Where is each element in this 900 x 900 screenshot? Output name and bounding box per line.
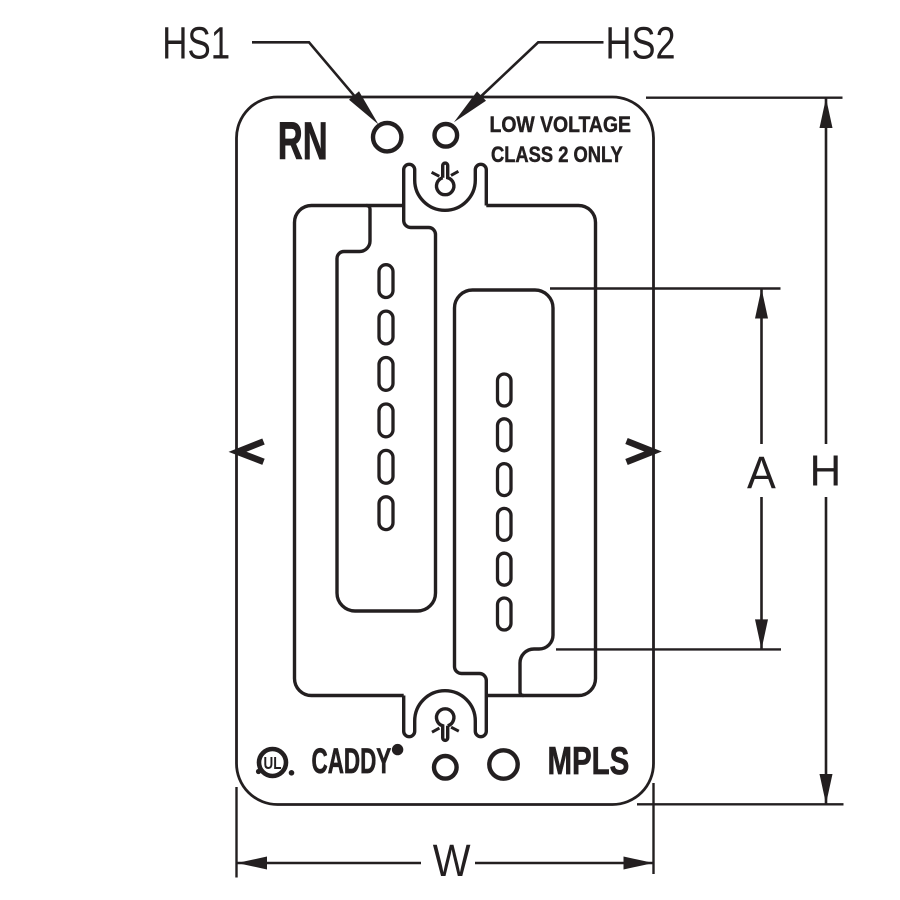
- A dimension: [550, 287, 781, 289]
- HS2 hole: [435, 124, 458, 147]
- svg-text:MPLS: MPLS: [548, 740, 630, 783]
- opening right boundary: [486, 206, 595, 696]
- CADDY registered dot: [392, 744, 403, 755]
- right tongue: [455, 290, 554, 696]
- H bottom arrowhead: [820, 774, 833, 804]
- UL logo circle: [259, 749, 286, 776]
- svg-text:RN: RN: [278, 113, 328, 171]
- bottom keyhole icon: [437, 709, 454, 741]
- bottom small hole: [434, 756, 457, 779]
- svg-text:H: H: [810, 447, 842, 496]
- HS2 leader: [475, 42, 604, 102]
- W left arrowhead: [237, 857, 267, 870]
- HS2 arrowhead: [454, 91, 486, 122]
- left tongue: [337, 206, 436, 612]
- svg-text:LOW VOLTAGE: LOW VOLTAGE: [490, 113, 631, 138]
- H dimension: [646, 96, 843, 98]
- svg-text:CLASS 2 ONLY: CLASS 2 ONLY: [491, 142, 623, 167]
- left chevron: [238, 442, 264, 462]
- svg-text:UL: UL: [264, 754, 282, 773]
- top arch (keyhole notch): [404, 164, 487, 210]
- plate outline: [237, 97, 654, 805]
- HS1 hole: [373, 123, 401, 151]
- svg-text:A: A: [747, 448, 776, 498]
- svg-text:CADDY: CADDY: [312, 742, 392, 781]
- opening left/top boundary: [295, 206, 404, 696]
- HS1 arrowhead: [349, 91, 379, 124]
- left tongue slots: [379, 265, 393, 530]
- bottom large hole: [489, 750, 517, 778]
- top keyhole icon: [437, 163, 454, 195]
- H top arrowhead: [820, 98, 833, 128]
- W dimension: [235, 787, 237, 878]
- bottom arch (keyhole notch): [404, 691, 487, 737]
- A top arrowhead: [755, 289, 768, 319]
- right chevron: [627, 441, 654, 462]
- A bottom arrowhead: [755, 619, 768, 649]
- HS1 leader: [252, 42, 358, 100]
- svg-text:HS2: HS2: [606, 18, 676, 69]
- right tongue slots: [498, 374, 512, 630]
- svg-text:HS1: HS1: [162, 18, 230, 68]
- svg-text:W: W: [433, 836, 471, 887]
- W right arrowhead: [624, 857, 654, 870]
- UL logo dots: [256, 769, 261, 774]
